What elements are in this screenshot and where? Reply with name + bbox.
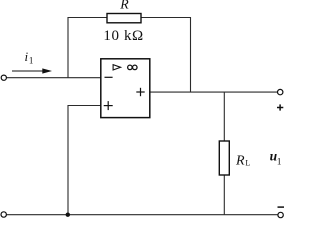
svg-text:1: 1	[277, 157, 282, 167]
svg-text:1: 1	[29, 55, 34, 65]
svg-text:i: i	[25, 49, 29, 64]
svg-text:10 kΩ: 10 kΩ	[103, 28, 143, 44]
svg-text:R: R	[235, 153, 245, 168]
svg-text:R: R	[119, 0, 129, 12]
svg-text:L: L	[245, 159, 250, 168]
